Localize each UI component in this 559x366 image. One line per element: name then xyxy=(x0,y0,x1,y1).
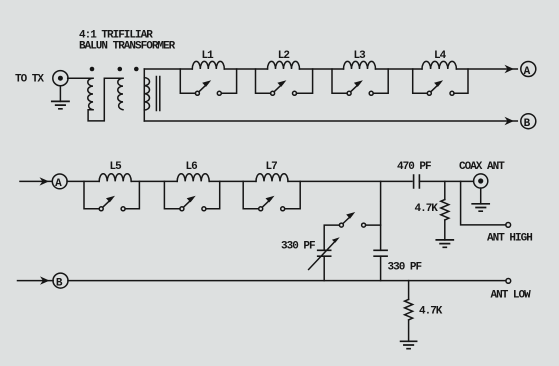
wire to ANT HIGH xyxy=(461,181,506,225)
switch S4 across L4 xyxy=(413,69,428,93)
ground below coax xyxy=(472,204,489,211)
phase dot 2 xyxy=(118,67,123,72)
wire C2 to bottom rail xyxy=(380,256,382,280)
arrow into B (row3) xyxy=(40,276,50,284)
wire bottom rail row3 xyxy=(68,280,506,282)
svg-text:COAX ANT: COAX ANT xyxy=(459,161,505,173)
node B (row1 output) xyxy=(521,114,536,129)
wire coax to ground xyxy=(480,188,482,204)
wire L6 to L7 xyxy=(209,180,256,182)
wire row3 input xyxy=(18,280,54,282)
svg-text:L7: L7 xyxy=(266,161,278,173)
svg-text:L4: L4 xyxy=(434,50,447,62)
transformer T1 winding 2 xyxy=(118,78,123,110)
ground below TX connector xyxy=(52,101,69,108)
svg-text:470 PF: 470 PF xyxy=(397,161,431,173)
switch S5 across L5 xyxy=(84,181,99,208)
svg-text:ANT LOW: ANT LOW xyxy=(491,289,532,301)
node bottom rail row1 to B xyxy=(144,120,517,122)
terminal ANT LOW xyxy=(506,279,511,284)
node A (row2 input) xyxy=(52,174,67,189)
transformer T1 winding 1 xyxy=(88,78,93,110)
svg-text:TO TX: TO TX xyxy=(15,73,44,85)
wire L7 to cap C1 xyxy=(288,180,412,182)
transformer T1 winding 3 xyxy=(143,69,145,121)
svg-text:L3: L3 xyxy=(354,50,367,62)
switch S3 across L3 xyxy=(332,69,347,93)
svg-text:L5: L5 xyxy=(110,161,123,173)
phase dot 1 xyxy=(90,67,95,72)
wire A to L5 xyxy=(67,180,99,182)
capacitor C2 330 PF (fixed) xyxy=(374,250,387,256)
svg-text:330 PF: 330 PF xyxy=(281,241,315,253)
wire row2 input xyxy=(20,180,52,182)
svg-text:4.7K: 4.7K xyxy=(419,305,443,317)
svg-text:L2: L2 xyxy=(278,50,290,62)
transformer T1 core xyxy=(156,77,159,111)
wire row2 junction down to C2 xyxy=(380,181,382,250)
wire C3 to bottom rail xyxy=(323,256,325,280)
ground below R1 xyxy=(436,240,453,247)
svg-text:4:1 TRIFILIAR: 4:1 TRIFILIAR xyxy=(79,30,153,42)
svg-text:BALUN TRANSFORMER: BALUN TRANSFORMER xyxy=(79,41,176,53)
arrow into A (row2) xyxy=(40,177,50,185)
connector J1 TO TX xyxy=(53,71,68,86)
wire L5 to L6 xyxy=(131,180,177,182)
wire TX connector to ground xyxy=(59,86,61,102)
svg-text:330 PF: 330 PF xyxy=(388,261,422,273)
switch S7 across L7 xyxy=(243,181,259,208)
arrow to A (row1) xyxy=(505,65,515,73)
arrow to B (row1) xyxy=(505,117,515,125)
node A (row1 output) xyxy=(521,62,536,77)
ground below R2 xyxy=(401,341,417,348)
switch S6 across L6 xyxy=(164,181,180,208)
switch S2 across L2 xyxy=(256,69,271,93)
node B (row3 input) xyxy=(53,273,68,288)
terminal ANT HIGH xyxy=(506,223,511,228)
phase dot 3 xyxy=(134,67,139,72)
wire TX to winding 1 xyxy=(68,77,93,79)
wire winding1 bottom jog to riser xyxy=(88,78,123,121)
switch S1 across L1 xyxy=(180,69,195,93)
svg-text:L1: L1 xyxy=(202,50,215,62)
svg-text:ANT HIGH: ANT HIGH xyxy=(487,233,532,245)
title text xyxy=(79,30,176,53)
svg-text:4.7K: 4.7K xyxy=(415,203,439,215)
switch S8 (variable cap select) xyxy=(366,224,381,226)
wire C1 to coax xyxy=(419,180,473,182)
connector J2 COAX ANT xyxy=(474,174,488,188)
node top rail row1 (broken under coils) xyxy=(144,68,517,70)
svg-text:L6: L6 xyxy=(186,161,198,173)
